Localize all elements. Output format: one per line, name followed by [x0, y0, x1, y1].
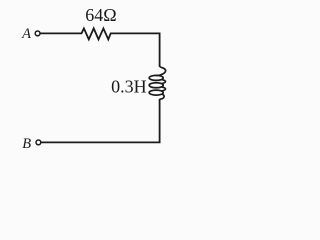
svg-text:64Ω: 64Ω	[85, 5, 116, 25]
svg-text:A: A	[21, 26, 31, 42]
svg-text:0.3H: 0.3H	[111, 77, 147, 97]
svg-text:B: B	[22, 136, 31, 152]
